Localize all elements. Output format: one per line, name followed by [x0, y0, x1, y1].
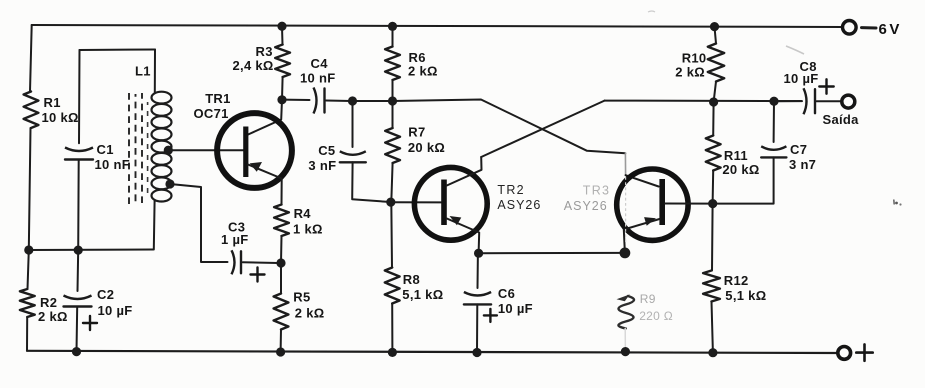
svg-text:C6: C6 [498, 286, 515, 301]
svg-text:C1: C1 [97, 142, 114, 157]
svg-text:OC71: OC71 [194, 106, 229, 121]
svg-text:3 nF: 3 nF [308, 158, 336, 173]
svg-text:2,4 kΩ: 2,4 kΩ [233, 58, 274, 73]
svg-text:C2: C2 [97, 287, 114, 302]
svg-text:2 kΩ: 2 kΩ [675, 64, 705, 79]
svg-text:R3: R3 [256, 44, 273, 59]
svg-text:C7: C7 [790, 142, 807, 157]
svg-text:ASY26: ASY26 [497, 198, 541, 212]
svg-text:R5: R5 [293, 290, 310, 305]
svg-text:2 kΩ: 2 kΩ [408, 64, 438, 79]
svg-text:R11: R11 [724, 148, 748, 163]
svg-text:6V: 6V [879, 21, 902, 38]
svg-text:3 n7: 3 n7 [789, 157, 816, 172]
svg-text:TR2: TR2 [497, 183, 525, 197]
svg-text:10 µF: 10 µF [498, 301, 533, 316]
svg-text:10 µF: 10 µF [784, 71, 819, 86]
svg-text:10 µF: 10 µF [98, 303, 133, 318]
svg-text:2 kΩ: 2 kΩ [38, 309, 68, 324]
svg-text:R1: R1 [44, 95, 61, 110]
svg-text:1 kΩ: 1 kΩ [293, 222, 323, 237]
svg-text:C4: C4 [311, 56, 329, 71]
svg-text:20 kΩ: 20 kΩ [722, 162, 759, 177]
svg-text:10 nF: 10 nF [95, 157, 130, 172]
svg-text:R9: R9 [640, 292, 656, 306]
svg-text:TR3: TR3 [583, 184, 611, 198]
svg-text:2 kΩ: 2 kΩ [295, 305, 325, 320]
svg-text:R8: R8 [403, 272, 420, 287]
svg-text:C5: C5 [318, 143, 335, 158]
svg-text:1 µF: 1 µF [221, 232, 248, 247]
svg-text:20 kΩ: 20 kΩ [408, 140, 445, 155]
svg-text:R2: R2 [40, 295, 57, 310]
svg-text:5,1 kΩ: 5,1 kΩ [402, 287, 443, 302]
svg-text:R7: R7 [408, 125, 425, 140]
svg-text:R10: R10 [682, 51, 707, 66]
svg-text:TR1: TR1 [205, 91, 230, 106]
svg-text:Saída: Saída [823, 112, 860, 127]
svg-text:R12: R12 [724, 273, 749, 288]
svg-text:L1: L1 [135, 64, 151, 79]
svg-text:220 Ω: 220 Ω [639, 309, 673, 323]
svg-text:10 nF: 10 nF [300, 71, 335, 86]
svg-text:ASY26: ASY26 [564, 199, 608, 213]
svg-text:10 kΩ: 10 kΩ [42, 110, 79, 125]
svg-text:5,1 kΩ: 5,1 kΩ [725, 288, 766, 303]
svg-text:R4: R4 [294, 206, 312, 221]
